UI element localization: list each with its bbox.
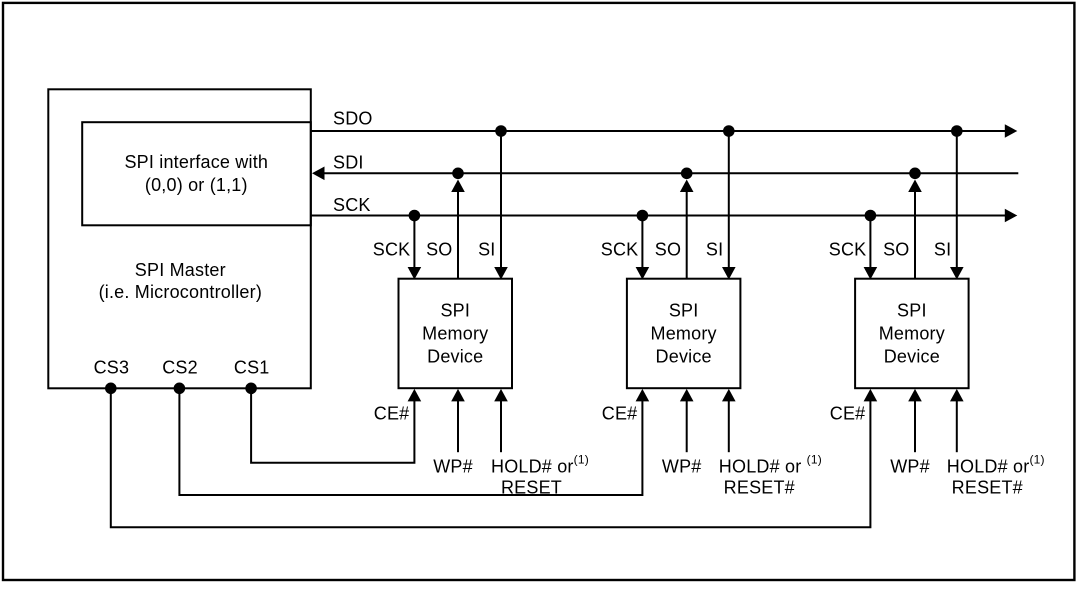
SPI Memory Device U2 label xyxy=(651,301,717,367)
SPI Memory Device U1 xyxy=(399,279,513,389)
svg-text:CE#: CE# xyxy=(602,404,638,424)
SPI Master label xyxy=(99,260,262,302)
svg-text:CS2: CS2 xyxy=(162,358,198,378)
wire SCK bus xyxy=(311,209,1018,223)
svg-text:SPI Master: SPI Master xyxy=(135,260,226,280)
wire CS3 to U3 CE# xyxy=(105,383,877,528)
svg-text:RESET#: RESET# xyxy=(952,478,1023,498)
svg-text:HOLD# or(1): HOLD# or(1) xyxy=(491,453,589,477)
svg-text:SO: SO xyxy=(655,240,681,260)
SPI interface sub-block xyxy=(82,122,311,225)
pin label HOLD# or RESET U3 xyxy=(947,453,1045,498)
wire CS1 to U1 CE# xyxy=(245,383,421,463)
wire HOLD#/RESET stub U1 xyxy=(494,389,508,452)
svg-text:SI: SI xyxy=(478,240,495,260)
wire SI to U2 xyxy=(722,125,736,279)
svg-text:SO: SO xyxy=(883,240,909,260)
svg-text:SPI: SPI xyxy=(897,301,927,321)
svg-text:WP#: WP# xyxy=(662,457,702,477)
svg-text:Memory: Memory xyxy=(651,324,717,344)
wire WP# stub U1 xyxy=(451,389,465,452)
wire WP# stub U2 xyxy=(680,389,694,452)
wire SDI bus xyxy=(312,167,1018,181)
svg-text:CE#: CE# xyxy=(374,404,410,424)
wire SCK to U2 xyxy=(636,210,650,280)
svg-text:CS1: CS1 xyxy=(234,358,270,378)
wire HOLD#/RESET stub U3 xyxy=(950,389,964,452)
svg-text:Device: Device xyxy=(656,347,712,367)
svg-text:WP#: WP# xyxy=(433,457,473,477)
svg-text:SCK: SCK xyxy=(601,240,639,260)
wire SCK to U3 xyxy=(864,210,878,280)
wire SCK to U1 xyxy=(408,210,422,280)
wire SO from U3 xyxy=(908,168,922,279)
SPI Memory Device U1 label xyxy=(422,301,488,367)
svg-text:SCK: SCK xyxy=(373,240,411,260)
svg-text:CS3: CS3 xyxy=(94,358,130,378)
svg-text:SDI: SDI xyxy=(333,152,364,172)
svg-text:CE#: CE# xyxy=(830,404,866,424)
svg-text:Device: Device xyxy=(427,347,483,367)
wire WP# stub U3 xyxy=(908,389,922,452)
pin label HOLD# or RESET U2 xyxy=(719,453,822,498)
svg-text:SPI interface with: SPI interface with xyxy=(124,152,268,172)
svg-text:SI: SI xyxy=(934,240,951,260)
wire CS2 to U2 CE# xyxy=(174,383,650,496)
SPI Master block xyxy=(48,89,311,388)
SPI Memory Device U3 label xyxy=(879,301,945,367)
svg-text:HOLD# or(1): HOLD# or(1) xyxy=(947,453,1045,477)
svg-text:WP#: WP# xyxy=(890,457,930,477)
svg-text:Memory: Memory xyxy=(422,324,488,344)
wire SO from U1 xyxy=(451,168,465,279)
svg-text:SPI: SPI xyxy=(440,301,470,321)
wire SI to U3 xyxy=(950,125,964,279)
wire SDO bus xyxy=(311,124,1018,138)
svg-text:(i.e. Microcontroller): (i.e. Microcontroller) xyxy=(99,282,262,302)
pin label HOLD# or RESET U1 xyxy=(491,453,589,498)
svg-text:Device: Device xyxy=(884,347,940,367)
svg-text:RESET#: RESET# xyxy=(724,478,795,498)
svg-text:Memory: Memory xyxy=(879,324,945,344)
svg-text:SPI: SPI xyxy=(669,301,699,321)
svg-text:SCK: SCK xyxy=(333,195,371,215)
wire SI to U1 xyxy=(494,125,508,279)
svg-text:SI: SI xyxy=(706,240,723,260)
svg-text:(0,0) or (1,1): (0,0) or (1,1) xyxy=(145,175,248,195)
svg-text:HOLD# or (1): HOLD# or (1) xyxy=(719,453,822,477)
svg-text:SCK: SCK xyxy=(829,240,867,260)
SPI interface label xyxy=(124,152,268,195)
svg-text:SDO: SDO xyxy=(333,109,373,129)
SPI Memory Device U3 xyxy=(855,279,969,389)
SPI Memory Device U2 xyxy=(627,279,741,389)
wire SO from U2 xyxy=(680,168,694,279)
wire HOLD#/RESET stub U2 xyxy=(722,389,736,452)
svg-text:SO: SO xyxy=(426,240,452,260)
